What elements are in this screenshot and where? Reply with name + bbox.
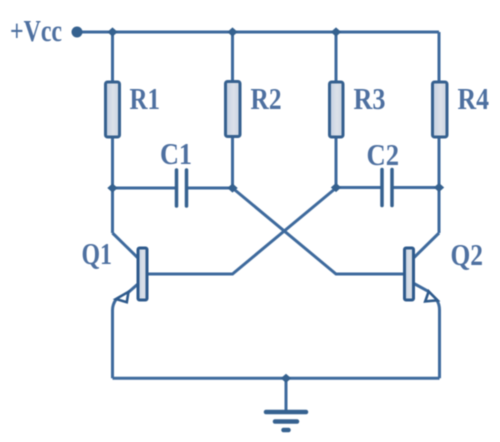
wire ground stub: [285, 378, 288, 410]
resistor R4: [433, 82, 448, 137]
capacitor C1 plates: [177, 170, 187, 206]
wire C2 right plate to node D: [392, 186, 439, 189]
wire column 1 upper (Vcc to Q1 collector bend): [111, 32, 114, 233]
wire bottom ground rail: [113, 377, 440, 380]
node C (C2 / R3 / Q1 base): [331, 183, 341, 192]
wire C1 right plate to node B: [187, 187, 233, 190]
node D (C2 / Q2 collector): [434, 183, 444, 192]
wire column 3 (Vcc to node C): [335, 32, 338, 188]
transistor Q1 emitter arrowhead: [116, 292, 129, 302]
resistor R2: [226, 82, 241, 137]
wire column 2 (Vcc to node B): [231, 32, 234, 188]
svg-text:R3: R3: [354, 81, 386, 116]
node junction ground rail / ground stub: [281, 374, 291, 383]
node B (C1 / R2 / Q2 base): [227, 183, 237, 192]
svg-text:Q2: Q2: [451, 237, 484, 272]
svg-text:R1: R1: [130, 81, 161, 116]
wire top supply rail: [77, 31, 439, 34]
node A (Q1 collector / C1): [107, 183, 117, 192]
node junction col2 / top rail: [227, 27, 237, 36]
capacitor C2 plates: [382, 170, 392, 206]
wire node C to C2 left plate: [336, 186, 382, 189]
wire Q1 collector diagonal: [113, 233, 140, 259]
node junction col1 / top rail: [107, 27, 117, 36]
svg-text:R2: R2: [251, 81, 282, 116]
transistor Q2 base bar: [405, 248, 414, 300]
wire Q2 emitter diagonal: [413, 283, 429, 292]
wire column 4 lower (Q2 emitter to ground rail): [437, 301, 440, 379]
resistor R3: [330, 82, 344, 137]
wire Q2 base (node B to base bar): [233, 188, 405, 274]
wire Q1 emitter diagonal: [129, 283, 140, 292]
svg-text:C1: C1: [160, 136, 192, 171]
resistor R1: [106, 82, 120, 137]
wire column 4 upper (Vcc to Q2 collector bend): [438, 32, 441, 233]
transistor Q1 base bar: [138, 248, 147, 300]
ground symbol: [266, 412, 306, 430]
svg-text:R4: R4: [458, 81, 490, 116]
svg-text:Q1: Q1: [82, 236, 113, 271]
svg-text:+Vcc: +Vcc: [10, 13, 62, 48]
transistor Q2 emitter arrowhead: [425, 291, 437, 301]
wire Q1 base (node C to base bar): [147, 188, 336, 274]
node Vcc terminal dot: [72, 27, 83, 38]
wire node A to C1 left plate: [113, 187, 177, 190]
wire column 1 lower (emitter to ground rail): [113, 300, 117, 379]
wire Q2 collector diagonal: [413, 233, 440, 259]
node junction col3 / top rail: [331, 27, 341, 36]
svg-text:C2: C2: [367, 137, 400, 172]
